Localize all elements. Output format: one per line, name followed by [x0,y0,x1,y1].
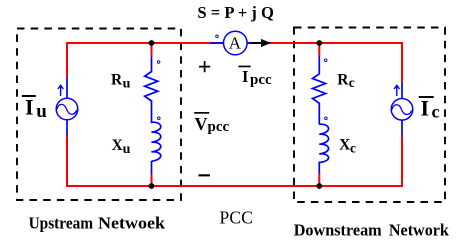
svg-text:R: R [111,71,123,88]
svg-text:c: c [349,75,355,90]
svg-text:A: A [229,33,242,52]
svg-text:UpstreamNetwoek: UpstreamNetwoek [29,214,166,233]
svg-text:DownstreamNetwork: DownstreamNetwork [294,221,450,240]
svg-text:S = P + j Q: S = P + j Q [197,3,274,22]
svg-text:u: u [123,76,131,91]
svg-text:I: I [25,94,34,119]
svg-text:R: R [337,71,349,88]
svg-text:V: V [195,114,208,134]
svg-text:c: c [432,102,440,122]
svg-text:pcc: pcc [250,72,272,88]
svg-text:pcc: pcc [208,119,230,135]
svg-text:I: I [421,96,430,121]
svg-text:PCC: PCC [220,207,254,227]
svg-text:u: u [123,142,131,157]
svg-text:c: c [350,140,356,155]
svg-text:I: I [242,67,248,86]
svg-text:u: u [36,101,47,122]
